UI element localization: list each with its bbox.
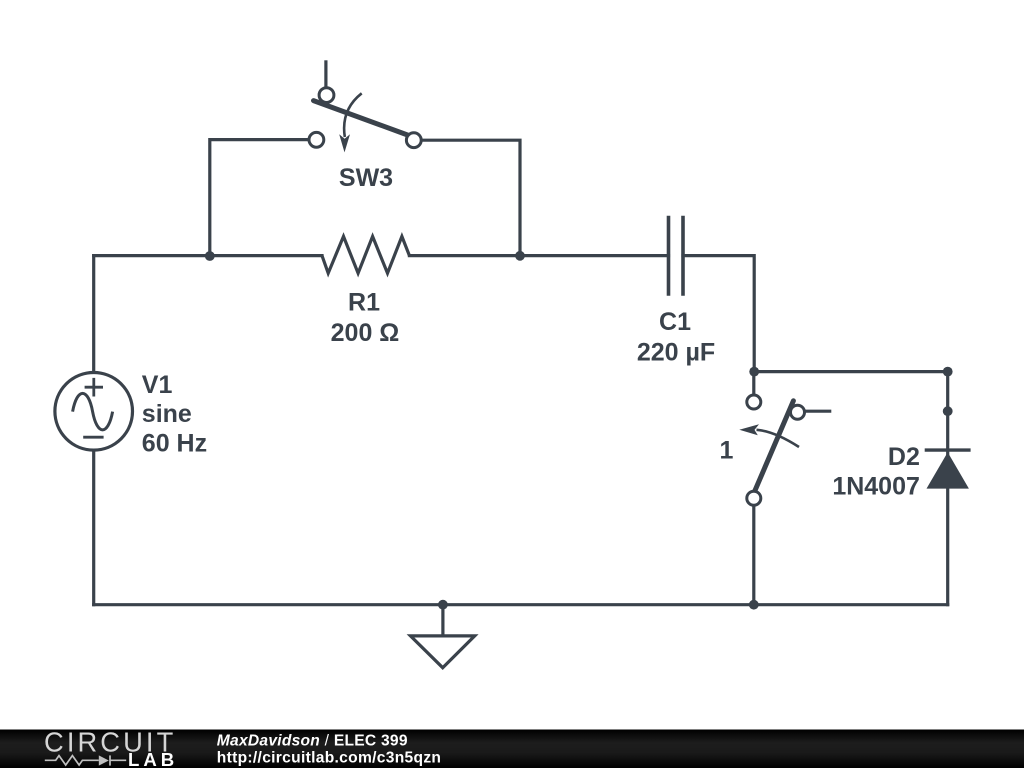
ground xyxy=(411,636,475,668)
svg-text:http://circuitlab.com/c3n5qzn: http://circuitlab.com/c3n5qzn xyxy=(217,749,441,766)
node dot D2 top xyxy=(943,367,953,377)
node dot R1 left xyxy=(205,251,215,261)
svg-text:60 Hz: 60 Hz xyxy=(142,429,207,457)
wire switch1 common down to bus xyxy=(752,505,755,605)
wire left vertical top (V1 top to node) xyxy=(92,256,95,373)
node dot switch1 top xyxy=(749,367,759,377)
svg-text:1N4007: 1N4007 xyxy=(832,473,920,501)
svg-text:R1: R1 xyxy=(348,288,380,316)
wire left vertical bottom (V1 bottom to ground bus) xyxy=(92,450,95,605)
wire bottom ground bus xyxy=(94,603,948,606)
node dot ground xyxy=(438,600,448,610)
svg-text:D2: D2 xyxy=(888,443,920,471)
switch 1 xyxy=(739,372,831,506)
wire SW3 branch left riser xyxy=(210,140,309,256)
ground stub xyxy=(441,605,444,636)
svg-text:SW3: SW3 xyxy=(339,164,393,192)
switch SW3 xyxy=(309,60,421,152)
svg-text:LAB: LAB xyxy=(128,749,178,768)
svg-text:200 Ω: 200 Ω xyxy=(331,319,400,347)
svg-text:sine: sine xyxy=(142,400,192,428)
diode D2 xyxy=(925,450,971,489)
wire top horizontal left (node to R1) xyxy=(94,254,322,257)
logo diode triangle xyxy=(99,755,109,765)
svg-text:220 µF: 220 µF xyxy=(637,338,715,366)
capacitor C1 xyxy=(669,216,684,296)
wire D2 branch vertical xyxy=(946,372,949,605)
wire SW3 branch right riser xyxy=(421,140,520,255)
svg-text:1: 1 xyxy=(720,437,734,465)
node dot R1 right xyxy=(515,251,525,261)
svg-text:V1: V1 xyxy=(142,371,173,399)
wire C1 right then down to switch node xyxy=(683,256,754,372)
svg-text:MaxDavidson / ELEC 399: MaxDavidson / ELEC 399 xyxy=(217,732,408,749)
wire node to D2 branch horizontal xyxy=(754,370,948,373)
node dot switch1 bottom xyxy=(749,600,759,610)
svg-text:C1: C1 xyxy=(659,308,691,336)
node dot D2 upper xyxy=(943,406,953,416)
logo squiggle resistor+diode xyxy=(45,755,126,765)
footer bar xyxy=(0,730,1024,768)
voltage source V1 xyxy=(55,373,133,451)
resistor R1 xyxy=(322,236,409,273)
wire R1 right to C1 xyxy=(409,254,668,257)
